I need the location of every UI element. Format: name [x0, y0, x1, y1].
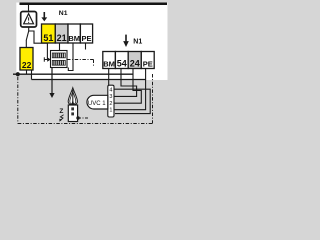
warning box (fault indicator): [21, 12, 37, 28]
svg-text:4: 4: [109, 87, 112, 93]
exclamation mark: [28, 17, 30, 20]
dash-dot link ignition unit, corner tick: [93, 60, 95, 67]
top black bar (controller N1 edge): [20, 3, 168, 6]
box 22 (limit thermostat): [20, 48, 33, 71]
svg-text:Z: Z: [59, 108, 63, 115]
wire BM pin down and into ignition unit bottom: [68, 43, 73, 71]
wire 21 pin down: [59, 43, 61, 51]
wire 51 pin down: [46, 43, 48, 59]
terminal BM (left): [68, 24, 80, 43]
UVC 1 control unit: [87, 95, 108, 109]
ignition unit (hatched plug box): [51, 51, 68, 68]
burner cable arrow: [51, 68, 53, 94]
svg-text:UVC 1: UVC 1: [88, 101, 106, 107]
bus B: [32, 79, 146, 81]
svg-text:N1: N1: [133, 38, 142, 45]
plug arrow into ignition unit: [43, 57, 45, 61]
wire 22 to bus B: [31, 70, 33, 80]
junction dot: [16, 72, 20, 76]
switch contact: [26, 31, 29, 41]
ignition spark zigzag arrow: [60, 115, 63, 121]
electrode box: [68, 105, 77, 122]
wire 54 to connector pin 3: [114, 69, 137, 97]
svg-text:1: 1: [109, 108, 112, 114]
hatch band 1: [52, 53, 65, 58]
bus A: [13, 73, 133, 75]
terminal 54: [115, 52, 128, 69]
svg-text:2: 2: [109, 101, 112, 107]
svg-text:22: 22: [22, 60, 32, 70]
wire branch to terminal 51: [29, 31, 48, 43]
svg-text:PE: PE: [81, 34, 91, 43]
electrode holder dark: [71, 100, 74, 105]
boiler enclosure dash-dot right: [152, 74, 154, 124]
arrow into terminal 54: [125, 35, 127, 42]
arrow into terminal 51: [43, 12, 45, 18]
boiler enclosure dash-dot left: [17, 77, 19, 124]
svg-text:24: 24: [130, 58, 140, 68]
white drawing area: [16, 3, 167, 81]
svg-text:BM: BM: [68, 34, 80, 43]
svg-text:N1: N1: [59, 10, 68, 17]
dash-dot stub from electrode box: [78, 117, 89, 119]
dash-dot link ignition unit, horizontal: [67, 59, 94, 61]
terminal PE (left): [80, 24, 92, 43]
wire connector pin 4 loop: [114, 89, 150, 113]
svg-text:3: 3: [109, 94, 112, 100]
wire 22 to bus A: [26, 70, 28, 74]
boiler enclosure dash-dot bottom: [18, 123, 153, 125]
hatch band 2: [52, 60, 65, 65]
PE pin stub: [85, 43, 87, 50]
wire bar to warning box: [28, 5, 30, 12]
warning triangle: [24, 14, 34, 24]
svg-text:51: 51: [43, 33, 53, 43]
terminal 24: [128, 52, 141, 69]
wire warning box down: [28, 27, 30, 31]
terminal PE (right): [141, 52, 154, 69]
svg-text:21: 21: [57, 33, 67, 43]
terminal 21: [55, 24, 68, 43]
junction dot electrode box: [76, 116, 79, 119]
terminal BM (right): [103, 52, 116, 69]
flame with ionisation electrode: [68, 88, 77, 105]
wire switch to box 22: [25, 40, 27, 47]
terminal 51: [42, 24, 56, 43]
wire 24 to connector pin 2: [114, 69, 141, 104]
connector block pins 4-1: [108, 85, 114, 117]
svg-text:54: 54: [117, 58, 127, 68]
electrode rod: [72, 90, 74, 106]
svg-text:BM: BM: [103, 59, 115, 68]
wire BM right into connector top: [108, 69, 110, 86]
wire PE to connector pin 1: [114, 69, 146, 110]
svg-text:PE: PE: [143, 59, 153, 68]
